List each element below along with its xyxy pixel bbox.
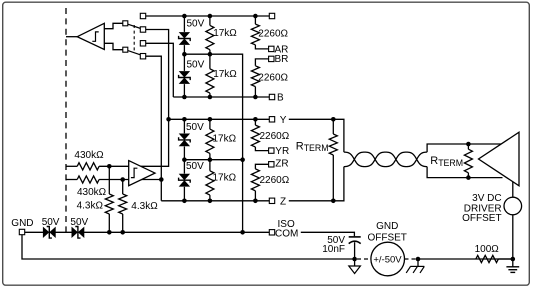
svg-text:GND: GND — [376, 221, 398, 232]
svg-text:R: R — [430, 155, 438, 167]
svg-text:TERM: TERM — [438, 158, 463, 168]
GND OFFSET source V2 (+/-50V) — [357, 258, 371, 260]
TVS diode D5 50V (GND series) — [43, 228, 48, 238]
svg-text:2260Ω: 2260Ω — [260, 175, 290, 186]
svg-text:10nF: 10nF — [322, 244, 345, 255]
svg-text:BR: BR — [275, 54, 289, 65]
terminal Y — [269, 117, 274, 122]
svg-text:TERM: TERM — [304, 143, 329, 153]
resistor 430k #1 — [77, 163, 99, 170]
isolated ground (open triangle) — [354, 259, 356, 266]
wire 4.3k top leads — [108, 166, 110, 194]
wire U1 input bottom to switch pole 2 — [104, 43, 122, 49]
switch S1 gang link (dashed) — [133, 25, 135, 52]
wire A rail — [146, 15, 270, 17]
svg-text:100Ω: 100Ω — [475, 244, 500, 255]
svg-text:50V: 50V — [186, 122, 204, 133]
resistor RTERM (left) — [332, 119, 334, 134]
wire U1 input top to switch pole 1 — [104, 23, 122, 28]
terminal B — [269, 94, 274, 99]
terminal ZR — [269, 162, 274, 167]
wire Y terminal to RTERM / twisted pair — [289, 119, 344, 152]
switch S1 arm 1 — [128, 24, 141, 28]
svg-text:17kΩ: 17kΩ — [213, 28, 237, 39]
svg-text:OFFSET: OFFSET — [367, 232, 406, 243]
svg-text:50V: 50V — [42, 217, 60, 228]
resistor 17k #1 — [209, 16, 211, 25]
wire GND down to bottom rail — [22, 235, 355, 259]
wire 3V source to bottom rail — [512, 215, 514, 259]
TVS diode D4 50V (mid to Z) — [183, 160, 185, 174]
wire GND / ISO COM rail — [25, 231, 44, 233]
svg-text:2260Ω: 2260Ω — [260, 131, 290, 142]
terminal BR — [269, 56, 274, 61]
wire twisted pair to RTERM right (top) — [427, 144, 501, 152]
wire from switch throw 3 down to B rail — [146, 43, 174, 97]
TVS diode D2 50V (mid to B) — [183, 54, 185, 71]
terminal ISO COM — [269, 230, 274, 235]
switch S1 pole 1 — [123, 21, 128, 26]
svg-text:4.3kΩ: 4.3kΩ — [131, 201, 158, 212]
wire lower mid rail — [184, 159, 242, 161]
resistor 430k #2 — [77, 176, 99, 183]
earth ground (3-bar) — [512, 259, 514, 267]
isolation barrier dashed line — [65, 8, 67, 232]
terminal Z — [269, 198, 274, 203]
svg-text:YR: YR — [275, 146, 289, 157]
receiver op-amp U3 — [479, 132, 520, 186]
svg-text:GND: GND — [11, 218, 33, 229]
driver op-amp U2 (Schmitt buffer) — [129, 161, 155, 186]
svg-text:17kΩ: 17kΩ — [213, 69, 237, 80]
3V DC driver offset source V1 — [504, 197, 522, 215]
svg-text:50V: 50V — [187, 19, 205, 30]
wire from switch throw 2 down to Y rail — [146, 30, 169, 120]
svg-text:17kΩ: 17kΩ — [213, 172, 237, 183]
terminal GND — [19, 229, 24, 234]
wire twisted pair to RTERM right (bottom) — [427, 167, 502, 178]
svg-text:50V: 50V — [70, 217, 88, 228]
terminal YR — [269, 148, 274, 153]
twisted pair cable — [344, 152, 427, 167]
resistor 17k #2 — [209, 54, 211, 69]
resistor 4.3k #1 — [105, 194, 113, 214]
resistor 2260 #2 (BR to B) — [255, 59, 268, 66]
resistor 17k #4 — [209, 160, 211, 171]
TVS diode D6 50V (GND series) — [72, 228, 77, 238]
svg-text:2260Ω: 2260Ω — [258, 73, 288, 84]
svg-text:50V: 50V — [186, 161, 204, 172]
resistor 2260 #3 (Y to YR) — [254, 119, 256, 125]
wire from switch throw 4 down to Z rail (driver output net) — [146, 56, 162, 201]
svg-text:COM: COM — [275, 229, 298, 240]
wire receiver divider net B (430k lower) — [66, 179, 77, 181]
svg-text:+/-50V: +/-50V — [373, 254, 402, 265]
switch S1 throw 1 — [140, 13, 145, 18]
svg-text:Y: Y — [280, 115, 287, 126]
switch S1 arm 2 — [128, 51, 141, 55]
wire Z terminal to RTERM / twisted pair — [289, 167, 344, 201]
switch S1 throw 2 — [140, 27, 145, 32]
svg-text:ZR: ZR — [275, 159, 288, 170]
wire B rail — [173, 96, 269, 98]
resistor 17k #3 — [209, 119, 211, 129]
resistor 2260 #1 (A to AR) — [254, 16, 256, 24]
svg-text:430kΩ: 430kΩ — [77, 187, 107, 198]
wire bottom rail right section — [418, 258, 513, 260]
TVS diode D1 50V (A to mid) — [183, 16, 185, 32]
svg-text:OFFSET: OFFSET — [462, 213, 501, 224]
wire U1 output to barrier — [66, 36, 77, 38]
wire Z rail — [161, 200, 269, 202]
svg-text:430kΩ: 430kΩ — [74, 150, 104, 161]
resistor RTERM (right) — [467, 144, 469, 149]
wire receiver divider net A (430k upper) — [66, 165, 77, 167]
resistor 100 ohm — [476, 255, 499, 262]
wire upper mid rail to ISO COM — [184, 54, 242, 232]
svg-text:17kΩ: 17kΩ — [213, 133, 237, 144]
chassis ground (hatched) — [417, 259, 419, 266]
svg-text:4.3kΩ: 4.3kΩ — [77, 201, 104, 212]
terminal AR — [269, 46, 274, 51]
terminal A — [269, 13, 274, 18]
capacitor C1 50V 10nF — [349, 236, 361, 238]
switch S1 throw 4 — [140, 54, 145, 59]
wire ISO COM to capacitor — [301, 232, 355, 236]
svg-text:R: R — [296, 141, 304, 153]
svg-text:B: B — [277, 93, 284, 104]
resistor 2260 #4 (ZR to Z) — [255, 164, 268, 169]
TVS diode D3 50V (Y to mid) — [183, 119, 185, 133]
junction dots — [182, 14, 187, 19]
wire 4.3k bottom leads — [108, 214, 110, 232]
wire Y rail — [169, 118, 270, 120]
wire receiver to 3V offset source — [512, 182, 514, 198]
switch S1 throw 3 — [140, 41, 145, 46]
switch S1 pole 2 — [123, 47, 128, 52]
resistor 4.3k #2 — [119, 194, 127, 214]
svg-text:2260Ω: 2260Ω — [258, 28, 288, 39]
svg-text:Z: Z — [280, 196, 286, 207]
svg-text:50V: 50V — [187, 60, 205, 71]
